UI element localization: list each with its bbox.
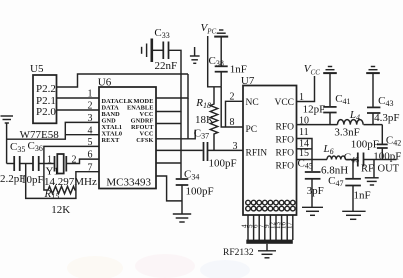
svg-text:C46: C46 xyxy=(344,152,359,165)
U6 left pin names xyxy=(102,98,133,144)
svg-text:RF2132: RF2132 xyxy=(223,248,254,258)
wire VPC to U7 PC/NC xyxy=(221,87,243,127)
svg-text:C43: C43 xyxy=(378,95,393,108)
wire VCC bus down to C34 xyxy=(180,112,182,179)
wire VCC pin6 xyxy=(156,162,181,164)
wire VPC stem xyxy=(208,36,222,87)
svg-text:C36: C36 xyxy=(28,140,43,153)
wire RFOUT line xyxy=(156,149,203,151)
svg-text:VCC: VCC xyxy=(274,98,294,108)
wire ground stem down to C35 xyxy=(6,123,8,164)
ground (below C47) xyxy=(342,211,365,219)
svg-text:12K: 12K xyxy=(51,204,70,216)
capacitor C36 xyxy=(33,156,39,171)
svg-text:22nF: 22nF xyxy=(155,60,178,72)
wire VCC pin3 xyxy=(156,123,181,125)
U7 ground pin numbers (rotated) xyxy=(241,222,294,230)
wire L6 to C46 xyxy=(345,159,357,161)
capacitor C45 xyxy=(311,160,313,172)
wire bus to ground xyxy=(266,244,268,251)
svg-text:1: 1 xyxy=(88,89,93,100)
svg-text:C42: C42 xyxy=(386,135,401,148)
wire NC-PC tie xyxy=(226,101,244,127)
svg-text:C35: C35 xyxy=(10,141,25,154)
inductor L6 xyxy=(327,156,345,160)
svg-text:RFO: RFO xyxy=(276,162,295,172)
svg-text:RFO: RFO xyxy=(276,136,295,146)
wire pin10 / L4 line xyxy=(297,124,338,126)
svg-text:3: 3 xyxy=(88,113,93,124)
wire MODE to rail xyxy=(156,74,188,98)
ground (floating, near VPC) xyxy=(190,47,200,63)
svg-text:VCC: VCC xyxy=(304,63,320,77)
svg-text:3.3nF: 3.3nF xyxy=(334,127,359,139)
IC U7 box xyxy=(243,86,297,216)
wire crystal to U6 pin6 XTAL0 xyxy=(66,159,99,163)
svg-text:7: 7 xyxy=(88,163,93,174)
wire gnd net to U6 pins 3,4 xyxy=(7,122,99,139)
wire L4 to C43/C42 xyxy=(364,124,383,126)
ground (RF line) xyxy=(373,160,375,178)
capacitor C47 xyxy=(352,160,354,179)
svg-text:L4: L4 xyxy=(349,109,360,122)
svg-text:6: 6 xyxy=(88,150,93,161)
svg-text:P2.0: P2.0 xyxy=(36,106,56,118)
wire MODE riser continues to GNDRF xyxy=(188,98,195,139)
svg-text:RF: RF xyxy=(361,164,374,175)
ground (below C34) xyxy=(173,214,191,222)
U7 ground pin stubs xyxy=(248,215,293,240)
svg-text:OUT: OUT xyxy=(378,164,400,175)
capacitor C41 xyxy=(329,73,331,106)
capacitor C33 xyxy=(163,42,168,60)
svg-text:C37: C37 xyxy=(194,128,209,141)
wire P2.0 to U6 pin2 xyxy=(57,109,100,111)
U7 right pin names xyxy=(274,98,294,172)
svg-text:U7: U7 xyxy=(241,75,255,87)
wire C33 to ENABLE xyxy=(156,50,181,111)
svg-text:C34: C34 xyxy=(184,169,199,182)
U7 bottom pin circles xyxy=(246,200,295,211)
svg-text:100pF: 100pF xyxy=(351,139,379,151)
ground (above C41) xyxy=(323,67,337,74)
U7 ground bus bar xyxy=(246,240,292,244)
wire P2.1 to U6 pin1 xyxy=(57,97,100,99)
wire U6 pin7 REXT down xyxy=(26,164,99,199)
wire CFSK to C34 gnd xyxy=(156,176,182,201)
svg-text:U6: U6 xyxy=(98,77,112,89)
wire pin14 xyxy=(297,148,313,150)
capacitor C46 xyxy=(358,153,364,167)
ground (below C45) xyxy=(302,207,323,215)
svg-text:1: 1 xyxy=(47,155,52,166)
svg-text:C33: C33 xyxy=(154,27,169,40)
IC U5 box xyxy=(33,75,57,123)
capacitor C42 xyxy=(381,125,383,144)
wire U6 pin5 XTAL1 drop xyxy=(44,146,99,163)
svg-text:RFO: RFO xyxy=(276,123,295,133)
ground (rotated, for C33) xyxy=(142,39,152,63)
svg-text:1nF: 1nF xyxy=(354,190,371,202)
capacitor C34 xyxy=(176,179,189,185)
svg-text:2: 2 xyxy=(230,92,235,103)
svg-text:U5: U5 xyxy=(30,63,44,75)
svg-text:4: 4 xyxy=(88,126,93,137)
svg-text:14.297MHz: 14.297MHz xyxy=(44,176,97,188)
svg-text:L6: L6 xyxy=(323,143,334,156)
resistor R15 xyxy=(44,164,76,194)
svg-text:18K: 18K xyxy=(195,114,214,126)
wire P2.2 to riser xyxy=(57,74,189,87)
svg-text:5: 5 xyxy=(88,137,93,148)
wire U6 pin4 xyxy=(65,134,99,136)
crystal Y1 xyxy=(55,156,67,172)
svg-text:NC: NC xyxy=(246,98,259,108)
U6 pin numbers xyxy=(88,89,93,174)
svg-text:RFO: RFO xyxy=(276,149,295,159)
wire pin11 xyxy=(297,139,313,160)
svg-text:1nF: 1nF xyxy=(230,64,247,76)
IC U6 box xyxy=(99,87,156,189)
wire C46 to RF OUT xyxy=(364,159,397,161)
capacitor C43 xyxy=(372,73,374,106)
svg-text:MC33493: MC33493 xyxy=(106,177,151,189)
svg-text:RFIN: RFIN xyxy=(246,149,268,159)
svg-text:100pF: 100pF xyxy=(373,150,401,162)
wire pin1 to VCC xyxy=(297,76,315,102)
svg-text:R18: R18 xyxy=(195,97,211,110)
U7 left pin names xyxy=(246,98,268,159)
capacitor C35 xyxy=(14,156,20,171)
wire gnd to C33 xyxy=(152,49,164,51)
svg-text:2: 2 xyxy=(88,101,93,112)
ground (top left) xyxy=(1,116,14,123)
wire GNDRF xyxy=(156,138,188,140)
ground (above C43) xyxy=(366,67,380,74)
wire C36 to crystal xyxy=(39,163,54,165)
watermark blobs xyxy=(67,254,250,278)
svg-text:8: 8 xyxy=(230,117,235,128)
svg-text:C47: C47 xyxy=(328,175,343,188)
ground (U7 bus) xyxy=(258,251,276,258)
wire pin15 / RF line xyxy=(297,159,328,161)
svg-text:P2.2: P2.2 xyxy=(36,83,56,95)
capacitor C37 xyxy=(204,142,208,161)
svg-text:3pF: 3pF xyxy=(307,185,324,197)
wire C37 to RFIN xyxy=(208,149,244,151)
svg-text:C41: C41 xyxy=(335,93,350,106)
svg-text:100pF: 100pF xyxy=(209,158,237,170)
capacitor C38 xyxy=(220,37,222,66)
svg-text:12pF: 12pF xyxy=(303,104,326,116)
svg-text:CFSK: CFSK xyxy=(136,137,153,144)
svg-text:17: 17 xyxy=(285,222,293,230)
svg-text:4.3pF: 4.3pF xyxy=(374,112,399,124)
U6 right pin names xyxy=(127,98,154,144)
svg-text:11: 11 xyxy=(299,127,309,138)
svg-text:VPC: VPC xyxy=(201,22,217,36)
svg-text:PC: PC xyxy=(246,125,258,135)
svg-text:100pF: 100pF xyxy=(186,186,214,198)
wire C35-C36 xyxy=(20,163,33,165)
resistor R18 xyxy=(210,87,217,151)
inductor L4 xyxy=(338,120,364,125)
ground (above C38) xyxy=(214,30,228,37)
svg-text:REXT: REXT xyxy=(102,137,121,144)
svg-text:10pF: 10pF xyxy=(21,174,44,186)
